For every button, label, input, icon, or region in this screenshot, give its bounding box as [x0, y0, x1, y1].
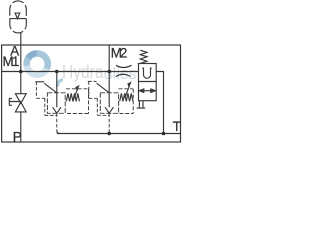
wire RV1 outlet to drain: [57, 113, 60, 133]
FC1 spring: [140, 50, 147, 63]
wire shutoff valve to port P: [20, 112, 22, 142]
wire FC1 outlet to drain drop: [156, 72, 163, 134]
svg-text:1: 1: [12, 54, 19, 69]
FC1 compensator cup: [142, 68, 152, 78]
RV1 pilot line horizontal: [35, 81, 44, 83]
RV2 adjustment arrow: [125, 83, 131, 98]
wire RV1 inlet: [56, 72, 58, 94]
RV2 enclosure dashed box: [119, 89, 134, 114]
port label M2: [111, 45, 128, 60]
junction at node A / accumulator: [19, 70, 23, 74]
RV1 enclosure dashed box: [66, 89, 89, 114]
wire RV2 inlet: [108, 72, 110, 94]
wire RV2 outlet to drain: [108, 113, 110, 133]
drain bus wire to port T: [57, 133, 181, 135]
wire accumulator to port A: [20, 33, 22, 45]
junction bus / RV1: [55, 70, 59, 74]
RV2 pilot line horizontal: [88, 80, 97, 82]
svg-text:T: T: [173, 119, 181, 134]
svg-text:P: P: [13, 130, 22, 145]
flow control valve FC1 body: [139, 64, 157, 101]
RV1 adjustment arrow: [73, 86, 79, 101]
RV2 spring: [120, 93, 133, 101]
junction bus / M2 / RV2: [107, 70, 111, 74]
FC1 spool double arrow: [139, 89, 155, 92]
RV2 pilot dashed loop: [89, 81, 109, 115]
accumulator ACC1: [10, 1, 27, 33]
junction drain / RV2 outlet: [107, 132, 111, 136]
junction drain / FC1 drop: [162, 132, 166, 136]
FC1 tank symbol: [137, 101, 146, 108]
RV1 pilot dashed loop: [36, 82, 56, 116]
RV1 spring: [66, 93, 79, 101]
restrictor OR1 on bus: [116, 65, 132, 76]
shutoff valve V1: [9, 94, 26, 112]
RV1 pilot diagonal to inlet: [44, 83, 57, 93]
RV2 flow arrow: [105, 93, 113, 113]
watermark text "Hydraulics": [62, 62, 137, 83]
svg-text:2: 2: [120, 45, 127, 60]
wire port A to shutoff valve (node A/M1): [20, 45, 22, 94]
relief valve RV2 body: [100, 93, 118, 114]
wire port M2 to bus: [108, 45, 110, 72]
port label M1: [3, 54, 20, 69]
relief valve RV1 body: [47, 93, 65, 114]
manifold enclosure boundary: [2, 45, 181, 142]
RV2 pilot diagonal to inlet: [97, 83, 110, 93]
RV1 flow arrow: [53, 93, 61, 113]
wire bus node A to flow control FC1: [2, 71, 139, 73]
watermark swirl logo: [27, 53, 63, 86]
